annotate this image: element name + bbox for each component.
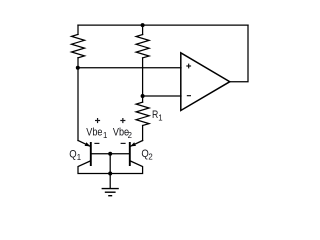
svg-text:2: 2 [128,131,132,140]
svg-text:1: 1 [103,131,107,140]
svg-text:1: 1 [77,153,81,162]
svg-text:1: 1 [158,114,162,123]
svg-text:2: 2 [148,153,152,162]
svg-text:Vbe: Vbe [86,126,102,138]
svg-text:Q: Q [69,149,76,161]
